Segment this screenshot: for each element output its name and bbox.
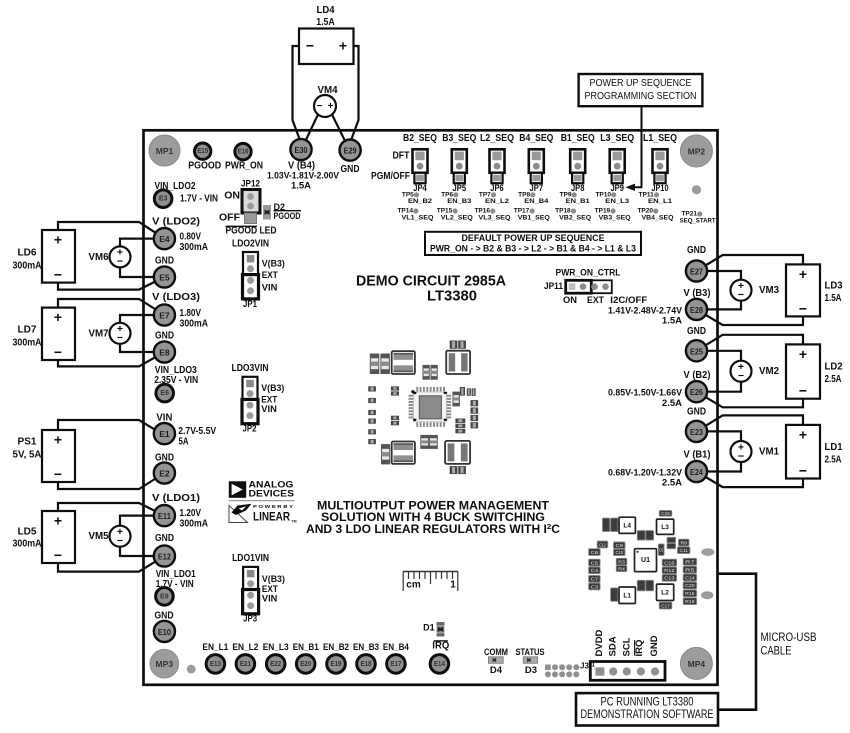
svg-text:E19: E19 (331, 661, 342, 668)
svg-text:−: − (117, 256, 123, 268)
svg-text:300mA: 300mA (180, 318, 209, 329)
svg-text:E23: E23 (690, 427, 703, 437)
svg-text:EN_L1: EN_L1 (648, 198, 672, 205)
svg-text:E30: E30 (295, 145, 308, 155)
svg-text:300mA: 300mA (13, 538, 42, 550)
svg-text:E5: E5 (159, 273, 170, 283)
svg-text:JP10: JP10 (652, 183, 669, 194)
svg-text:GND: GND (341, 163, 360, 175)
svg-text:JP2: JP2 (243, 424, 257, 435)
svg-text:V (B1): V (B1) (684, 450, 711, 461)
svg-text:LT3380: LT3380 (427, 289, 477, 305)
svg-text:−: − (799, 463, 807, 479)
svg-text:DVDD: DVDD (594, 629, 605, 656)
svg-text:2.5A: 2.5A (662, 398, 682, 409)
svg-text:GND: GND (687, 325, 706, 337)
svg-text:VL1_SEQ: VL1_SEQ (402, 214, 434, 221)
svg-text:C7: C7 (591, 577, 599, 582)
svg-text:LINEAR: LINEAR (253, 510, 290, 524)
svg-text:D1: D1 (423, 623, 435, 633)
svg-text:C15: C15 (661, 511, 670, 516)
svg-text:GND: GND (155, 329, 174, 341)
svg-text:B4_SEQ: B4_SEQ (519, 133, 553, 144)
svg-text:SEQ_START: SEQ_START (680, 218, 716, 225)
svg-text:B3_SEQ: B3_SEQ (442, 133, 476, 144)
svg-text:LDO2VIN: LDO2VIN (232, 238, 269, 249)
svg-text:DEVICES: DEVICES (249, 489, 295, 500)
svg-text:L1: L1 (623, 592, 631, 599)
svg-text:LDO1VIN: LDO1VIN (232, 553, 269, 564)
svg-text:300mA: 300mA (180, 242, 209, 253)
svg-text:JP3: JP3 (243, 614, 257, 625)
svg-text:E13: E13 (210, 661, 221, 668)
svg-text:GND: GND (687, 244, 706, 256)
svg-text:D4: D4 (490, 665, 503, 676)
svg-text:1.5A: 1.5A (291, 181, 311, 192)
svg-text:PGM/OFF: PGM/OFF (371, 170, 410, 182)
svg-text:PGOOD: PGOOD (274, 211, 301, 221)
svg-text:LD7: LD7 (18, 323, 37, 335)
svg-text:+: + (339, 38, 347, 54)
svg-text:OFF: OFF (219, 212, 241, 224)
svg-text:E22: E22 (270, 661, 281, 668)
svg-text:C10: C10 (616, 550, 624, 555)
svg-text:300mA: 300mA (180, 518, 209, 529)
svg-text:+: + (54, 232, 62, 248)
svg-text:E28: E28 (690, 305, 703, 315)
svg-text:VL3_SEQ: VL3_SEQ (479, 214, 511, 221)
svg-text:V(B3): V(B3) (262, 259, 285, 270)
svg-text:E21: E21 (240, 661, 251, 668)
svg-text:E20: E20 (300, 661, 311, 668)
svg-text:GND: GND (687, 406, 706, 418)
svg-text:1.80V: 1.80V (180, 308, 202, 319)
svg-text:VM6: VM6 (89, 251, 109, 263)
svg-text:VB3_SEQ: VB3_SEQ (599, 214, 631, 221)
svg-text:1: 1 (450, 580, 456, 591)
svg-text:+: + (799, 346, 807, 362)
svg-text:VL2_SEQ: VL2_SEQ (441, 214, 473, 221)
svg-text:VIN: VIN (261, 404, 277, 415)
svg-text:EN_L1: EN_L1 (202, 642, 229, 653)
svg-text:COMM: COMM (484, 647, 508, 658)
svg-text:EN_B2: EN_B2 (323, 642, 349, 653)
svg-text:R3: R3 (618, 559, 625, 564)
svg-text:−: − (799, 300, 807, 316)
svg-text:JP11: JP11 (544, 281, 564, 292)
svg-text:300mA: 300mA (13, 260, 42, 272)
svg-text:L3_SEQ: L3_SEQ (600, 133, 634, 144)
svg-text:JP6: JP6 (490, 183, 504, 194)
svg-text:ON: ON (224, 190, 240, 202)
svg-text:+: + (799, 266, 807, 282)
svg-text:R5: R5 (685, 567, 696, 572)
svg-text:C5: C5 (659, 547, 663, 552)
svg-text:C6: C6 (591, 550, 599, 555)
svg-text:0.80V: 0.80V (180, 231, 202, 242)
svg-text:EN_L3: EN_L3 (605, 198, 629, 205)
svg-text:PC RUNNING LT3380: PC RUNNING LT3380 (601, 696, 694, 708)
svg-text:5A: 5A (179, 436, 189, 447)
svg-text:VB2_SEQ: VB2_SEQ (559, 214, 591, 221)
svg-text:C5: C5 (591, 560, 599, 565)
svg-text:PGOOD LED: PGOOD LED (226, 226, 277, 237)
svg-text:E6: E6 (160, 390, 169, 397)
svg-text:1.5A: 1.5A (825, 292, 842, 304)
svg-text:E4: E4 (159, 234, 170, 244)
svg-text:+: + (328, 101, 334, 112)
svg-text:EN_B4: EN_B4 (383, 642, 410, 653)
svg-text:E18: E18 (361, 661, 372, 668)
svg-text:−: − (799, 383, 807, 399)
svg-text:2.7V-5.5V: 2.7V-5.5V (178, 426, 216, 437)
svg-text:I2C/OFF: I2C/OFF (610, 295, 648, 305)
svg-text:E12: E12 (158, 552, 171, 562)
svg-text:+: + (799, 426, 807, 442)
svg-text:EN_B3: EN_B3 (353, 642, 379, 653)
svg-text:C12: C12 (599, 542, 606, 547)
svg-text:E10: E10 (158, 627, 171, 637)
svg-text:−: − (54, 547, 62, 563)
svg-text:C20: C20 (685, 583, 695, 588)
svg-text:EN_B1: EN_B1 (566, 198, 590, 205)
svg-text:B2_SEQ: B2_SEQ (403, 133, 437, 144)
svg-text:L3: L3 (661, 524, 669, 531)
svg-text:GND: GND (155, 254, 174, 266)
svg-text:U1: U1 (641, 557, 650, 564)
svg-text:E24: E24 (690, 467, 703, 477)
svg-text:EXT: EXT (262, 270, 278, 281)
svg-text:DEMONSTRATION SOFTWARE: DEMONSTRATION SOFTWARE (581, 709, 714, 721)
svg-text:C14: C14 (685, 575, 695, 580)
svg-text:+: + (54, 432, 62, 448)
svg-text:B1_SEQ: B1_SEQ (561, 133, 595, 144)
svg-text:VB4_SEQ: VB4_SEQ (642, 214, 674, 221)
svg-text:L2_SEQ: L2_SEQ (480, 133, 514, 144)
svg-text:R9: R9 (681, 540, 688, 545)
svg-text:LD4: LD4 (317, 4, 335, 16)
svg-text:VM3: VM3 (759, 284, 779, 296)
svg-text:C13: C13 (664, 576, 675, 581)
svg-text:V (LDO3): V (LDO3) (152, 292, 200, 303)
svg-text:PWR_ON - > B2 & B3 - > L2 - >: PWR_ON - > B2 & B3 - > L2 - > B1 & B4 - … (430, 244, 636, 255)
svg-text:VIN: VIN (262, 282, 278, 293)
svg-text:JP8: JP8 (571, 183, 585, 194)
svg-text:V (LDO2): V (LDO2) (152, 216, 200, 227)
svg-text:E17: E17 (390, 661, 401, 668)
svg-text:E16: E16 (238, 149, 249, 156)
svg-text:R4: R4 (618, 566, 625, 571)
svg-text:EN_B1: EN_B1 (293, 642, 320, 653)
svg-text:VM5: VM5 (89, 530, 109, 542)
svg-text:E15: E15 (197, 148, 208, 155)
svg-text:LDO3VIN: LDO3VIN (232, 363, 269, 374)
svg-text:R12: R12 (664, 568, 675, 573)
svg-text:PGOOD: PGOOD (188, 160, 221, 171)
svg-text:1.5A: 1.5A (662, 316, 682, 327)
svg-text:GND: GND (155, 532, 174, 544)
svg-text:EN_L2: EN_L2 (485, 198, 509, 205)
svg-text:−: − (54, 267, 62, 283)
svg-text:LD3: LD3 (825, 280, 843, 292)
svg-text:E1: E1 (159, 429, 170, 439)
svg-text:−: − (738, 450, 744, 462)
svg-text:300mA: 300mA (13, 337, 42, 349)
svg-text:JP9: JP9 (610, 183, 624, 194)
svg-text:V (B3): V (B3) (684, 288, 711, 299)
svg-text:−: − (738, 289, 744, 301)
svg-text:VM2: VM2 (759, 365, 779, 377)
svg-text:E2: E2 (159, 469, 170, 479)
svg-text:MP4: MP4 (688, 659, 706, 669)
svg-text:2.5A: 2.5A (825, 373, 842, 385)
svg-text:C16: C16 (664, 560, 675, 565)
svg-text:MP1: MP1 (156, 146, 174, 156)
svg-text:EN_B3: EN_B3 (447, 198, 471, 205)
svg-text:L4: L4 (623, 522, 631, 529)
svg-text:PWR_ON_CTRL: PWR_ON_CTRL (556, 267, 621, 278)
svg-text:−: − (306, 38, 314, 54)
svg-text:EN_L2: EN_L2 (232, 642, 258, 653)
svg-text:−: − (317, 101, 323, 112)
svg-text:E9: E9 (160, 593, 169, 600)
svg-text:JP4: JP4 (413, 183, 427, 194)
svg-text:EXT: EXT (587, 295, 604, 305)
svg-text:E26: E26 (690, 387, 703, 397)
svg-text:JP7: JP7 (530, 183, 544, 194)
svg-text:−: − (738, 370, 744, 382)
svg-text:2.5A: 2.5A (825, 454, 842, 466)
svg-text:R16: R16 (685, 599, 695, 604)
svg-text:VIN: VIN (156, 411, 172, 423)
svg-text:−: − (117, 535, 123, 547)
svg-text:JP12: JP12 (241, 179, 260, 190)
svg-text:VIN: VIN (262, 594, 278, 605)
svg-text:cm: cm (406, 580, 421, 591)
svg-text:L2: L2 (661, 589, 669, 596)
svg-text:J3: J3 (580, 662, 589, 671)
svg-text:C17: C17 (661, 603, 670, 608)
svg-text:5V, 5A: 5V, 5A (13, 449, 42, 461)
svg-text:IRQ: IRQ (432, 640, 449, 651)
svg-text:VM7: VM7 (89, 327, 109, 339)
svg-text:R7: R7 (685, 560, 696, 565)
svg-text:1: 1 (591, 662, 595, 669)
svg-text:EN_L3: EN_L3 (263, 642, 289, 653)
svg-text:1.5A: 1.5A (316, 16, 335, 28)
svg-text:D3: D3 (525, 665, 537, 676)
svg-text:DEMO CIRCUIT 2985A: DEMO CIRCUIT 2985A (356, 274, 507, 290)
svg-text:E27: E27 (690, 267, 703, 277)
svg-text:SOLUTION WITH 4 BUCK SWITCHING: SOLUTION WITH 4 BUCK SWITCHING (321, 512, 545, 524)
svg-text:DFT: DFT (393, 149, 410, 161)
svg-text:ON: ON (563, 295, 577, 305)
svg-text:V (B2): V (B2) (684, 370, 711, 381)
svg-text:E7: E7 (159, 311, 170, 321)
svg-text:MP2: MP2 (688, 147, 706, 157)
svg-text:MULTIOUTPUT POWER MANAGEMENT: MULTIOUTPUT POWER MANAGEMENT (317, 500, 549, 512)
svg-text:LD5: LD5 (18, 526, 37, 538)
svg-text:C4: C4 (591, 568, 599, 573)
svg-text:−: − (117, 332, 123, 344)
svg-text:VM1: VM1 (759, 446, 779, 458)
svg-text:V (LDO1): V (LDO1) (152, 493, 200, 504)
svg-text:L1_SEQ: L1_SEQ (643, 133, 677, 144)
svg-text:LD2: LD2 (825, 361, 843, 373)
svg-text:PS1: PS1 (18, 436, 37, 448)
svg-text:VB1_SEQ: VB1_SEQ (518, 214, 550, 221)
svg-text:E8: E8 (159, 348, 170, 358)
svg-text:JP5: JP5 (453, 183, 467, 194)
svg-text:E3: E3 (159, 196, 168, 203)
svg-text:−: − (54, 466, 62, 482)
svg-text:JP1: JP1 (243, 299, 258, 310)
svg-text:CABLE: CABLE (761, 645, 792, 657)
svg-text:POWER UP SEQUENCE: POWER UP SEQUENCE (590, 78, 692, 89)
svg-text:LD1: LD1 (825, 441, 843, 453)
svg-text:P O W E R B Y: P O W E R B Y (253, 504, 293, 509)
svg-text:MP3: MP3 (156, 659, 174, 669)
svg-text:C9: C9 (616, 543, 624, 548)
svg-text:E14: E14 (434, 661, 445, 668)
svg-text:E25: E25 (690, 346, 703, 356)
svg-text:EN_B2: EN_B2 (408, 198, 432, 205)
svg-text:R15: R15 (685, 591, 695, 596)
svg-text:IRQ: IRQ (634, 640, 645, 657)
svg-text:C3: C3 (591, 584, 599, 589)
svg-text:SDA: SDA (607, 636, 618, 656)
svg-text:E11: E11 (158, 511, 171, 521)
svg-text:PWR_ON: PWR_ON (225, 160, 263, 171)
svg-text:PROGRAMMING SECTION: PROGRAMMING SECTION (585, 91, 697, 102)
svg-text:SCL: SCL (621, 637, 632, 656)
svg-text:MICRO-USB: MICRO-USB (761, 632, 817, 644)
svg-text:GND: GND (649, 635, 660, 656)
svg-text:V(B3): V(B3) (261, 383, 284, 394)
svg-text:2.5A: 2.5A (662, 478, 682, 489)
svg-text:AND 3 LDO LINEAR REGULATORS WI: AND 3 LDO LINEAR REGULATORS WITH I2C (306, 522, 560, 537)
svg-text:E29: E29 (344, 146, 357, 156)
svg-text:LD6: LD6 (18, 246, 37, 258)
svg-text:C11: C11 (680, 548, 689, 553)
svg-text:TM: TM (292, 520, 297, 524)
svg-text:+: + (54, 309, 62, 325)
svg-text:+: + (54, 513, 62, 529)
svg-text:EN_B4: EN_B4 (524, 198, 548, 205)
svg-text:STATUS: STATUS (516, 647, 545, 658)
svg-text:1.7V - VIN: 1.7V - VIN (180, 194, 218, 205)
svg-text:DEFAULT POWER UP SEQUENCE: DEFAULT POWER UP SEQUENCE (462, 233, 605, 244)
svg-text:−: − (54, 344, 62, 360)
